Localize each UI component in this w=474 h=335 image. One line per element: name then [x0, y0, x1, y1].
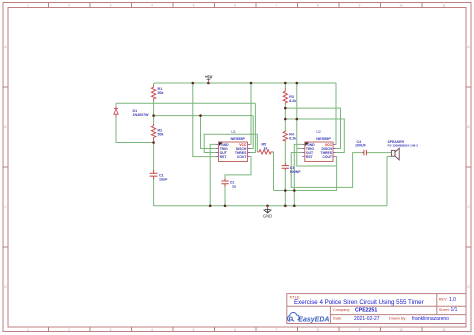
svg-text:6: 6 — [234, 4, 236, 8]
svg-text:2021-02-27: 2021-02-27 — [354, 316, 380, 322]
svg-text:8: 8 — [317, 328, 319, 332]
svg-text:8.2k: 8.2k — [289, 137, 296, 141]
node H2-TRIG dot — [199, 114, 202, 117]
wire TRIG stub link U2 — [297, 148, 303, 150]
svg-text:1: 1 — [27, 4, 29, 8]
wire U2 OUT to C4 — [291, 153, 362, 188]
wire R3/R4 node to U2 DISCH — [285, 108, 340, 148]
svg-text:5: 5 — [193, 328, 195, 332]
svg-text:U2: U2 — [316, 130, 321, 134]
node R2-D1-C1 dot — [152, 141, 155, 144]
svg-text:3: 3 — [110, 4, 112, 8]
power +5V flag — [205, 75, 213, 83]
svg-text:Sheet:: Sheet: — [439, 308, 450, 312]
wire D1 bottom to R2 bottom node — [116, 118, 154, 143]
svg-text:10: 10 — [399, 328, 403, 332]
node R1R2 dot — [152, 114, 155, 117]
svg-text:Date:: Date: — [333, 316, 342, 320]
svg-text:9: 9 — [359, 4, 361, 8]
svg-text:7: 7 — [276, 328, 278, 332]
wire C4 right to speaker — [367, 152, 391, 154]
svg-text:10uF: 10uF — [159, 177, 168, 181]
svg-text:1.0: 1.0 — [449, 297, 456, 303]
svg-text:franklinnazareno: franklinnazareno — [412, 316, 449, 322]
svg-text:11: 11 — [442, 328, 446, 332]
pin 1 marker U1 — [219, 143, 223, 147]
capacitor C4 — [362, 150, 367, 155]
node rail-RST dot — [192, 82, 195, 85]
wire U2 GND to ground rail — [294, 144, 302, 205]
wire R1-R2 column — [153, 101, 155, 124]
wire R3 top lead — [284, 83, 286, 88]
node gndrail-2 dot — [224, 205, 227, 208]
node gndrail-1 dot — [209, 205, 212, 208]
resistor R5 — [257, 150, 273, 154]
svg-text:4: 4 — [151, 4, 153, 8]
wire C2 bottom to ground rail — [224, 187, 226, 206]
svg-text:B: B — [4, 125, 6, 129]
svg-text:1/1: 1/1 — [451, 307, 458, 313]
ic U2 555 timer NE555P — [302, 130, 335, 161]
svg-text:1k: 1k — [264, 147, 268, 151]
node rail-TRIG2 dot — [296, 82, 299, 85]
wire rail to U1 RST — [193, 83, 217, 157]
svg-text:COUT: COUT — [322, 155, 333, 159]
wire C3 bottom to ground rail — [284, 171, 286, 206]
resistor R1 — [151, 85, 155, 101]
pin stubs right U2 — [333, 144, 336, 156]
svg-text:Company:: Company: — [333, 308, 350, 312]
svg-text:100UF: 100UF — [355, 143, 367, 147]
wire rail to U1 VCC — [250, 83, 251, 144]
svg-text:8.2k: 8.2k — [289, 99, 296, 103]
wire R3/R4 node to U2 THRES — [285, 119, 344, 153]
svg-text:2: 2 — [68, 328, 70, 332]
svg-text:U1: U1 — [231, 130, 236, 134]
wire TRIG column U2 — [297, 83, 337, 166]
node rail-R3 dot — [284, 82, 287, 85]
svg-text:11: 11 — [442, 4, 446, 8]
svg-text:9: 9 — [359, 328, 361, 332]
svg-text:1N4007W: 1N4007W — [133, 113, 150, 117]
wire U1 GND to ground rail — [210, 144, 216, 205]
svg-text:Drawn By:: Drawn By: — [389, 316, 407, 320]
svg-text:COUT: COUT — [237, 155, 248, 159]
wire speaker return — [386, 156, 388, 205]
svg-text:4: 4 — [151, 328, 153, 332]
wire D1 top lead — [115, 103, 117, 106]
node gndrail-3 dot — [266, 205, 269, 208]
svg-text:FS-150MBB810-148-3: FS-150MBB810-148-3 — [388, 144, 419, 148]
svg-text:Exercise 4 Police Siren Circui: Exercise 4 Police Siren Circuit Using 55… — [294, 299, 424, 306]
wire R4 bottom to C3 — [284, 142, 286, 163]
wire R5 right down to OUT line — [273, 152, 275, 191]
svg-text:3: 3 — [110, 328, 112, 332]
node siren-gnd2 dot — [293, 189, 296, 192]
ic U1 555 timer NE555P — [216, 130, 250, 161]
speaker LS1 — [387, 148, 399, 160]
svg-text:5: 5 — [193, 4, 195, 8]
wire H2 to U1 TRIG — [201, 116, 217, 149]
node trig2 dot — [296, 118, 299, 121]
wire U2 VCC from rail — [334, 83, 337, 144]
svg-text:1: 1 — [27, 328, 29, 332]
wire D1 top H1 to U1 THRES — [116, 103, 255, 152]
resistor R4 — [283, 130, 287, 142]
diode D1 — [114, 107, 118, 118]
wire U1 COUT to C2 — [225, 157, 251, 179]
node gndrail-5 dot — [293, 205, 296, 208]
svg-text:CPE2251: CPE2251 — [355, 308, 377, 314]
svg-text:NE555P: NE555P — [316, 136, 331, 141]
node R3R4-b dot — [284, 118, 287, 121]
svg-text:+5V: +5V — [205, 75, 213, 80]
svg-text:B: B — [467, 125, 469, 129]
svg-text:8: 8 — [317, 4, 319, 8]
pin stubs left U2 — [302, 144, 305, 156]
svg-text:7: 7 — [276, 4, 278, 8]
node R3R4-a dot — [284, 107, 287, 110]
capacitor C1 — [150, 170, 158, 180]
svg-text:10: 10 — [399, 4, 403, 8]
ground GND flag — [263, 206, 272, 219]
pin stubs left U1 — [216, 144, 219, 156]
pin stubs right U1 — [248, 144, 251, 156]
wire R2 bottom to C1 — [153, 142, 155, 171]
capacitor C2 — [221, 179, 228, 187]
svg-text:50k: 50k — [158, 91, 164, 95]
resistor R2 — [151, 124, 155, 142]
wire C1 bottom to ground rail — [153, 180, 155, 206]
svg-text:50k: 50k — [158, 133, 164, 137]
svg-text:EasyEDA: EasyEDA — [298, 316, 329, 323]
resistor R3 — [283, 88, 287, 105]
svg-text:500NF: 500NF — [290, 170, 302, 174]
wire ground rail — [154, 205, 387, 207]
EasyEDA logo — [288, 312, 330, 323]
pin 1 marker U2 — [305, 143, 309, 147]
node gndrail-4 dot — [284, 205, 287, 208]
svg-text:2: 2 — [68, 4, 70, 8]
svg-text:NE555P: NE555P — [231, 136, 246, 141]
svg-text:RST: RST — [306, 155, 314, 159]
capacitor C3 — [282, 163, 289, 171]
wire H2 node to U1 DISCH — [154, 116, 254, 149]
wire R3-R4 column — [284, 105, 286, 131]
wire U1 OUT to R5 (H3 loop) — [204, 134, 257, 152]
node rail +5V dot — [207, 82, 210, 85]
wire top +5V rail — [154, 82, 336, 84]
svg-text:REV:: REV: — [439, 297, 448, 301]
node siren-C3 dot — [284, 189, 287, 192]
svg-text:1u: 1u — [232, 185, 236, 189]
node rail-VCC1 dot — [250, 82, 253, 85]
svg-text:GND: GND — [263, 213, 272, 218]
svg-text:6: 6 — [234, 328, 236, 332]
wire R1 top lead column — [153, 83, 155, 85]
wire R5 output line y190 — [274, 190, 337, 192]
svg-text:RST: RST — [220, 155, 228, 159]
wire U2 COUT down to siren line — [336, 157, 337, 191]
